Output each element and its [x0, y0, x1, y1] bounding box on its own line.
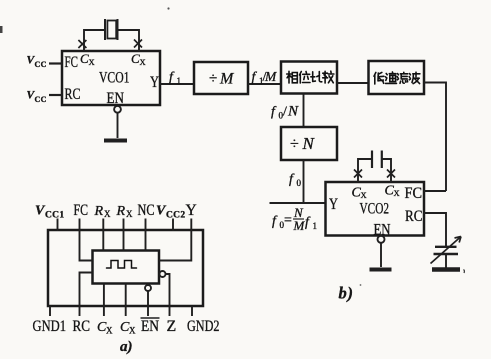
ground under VCO2 [370, 268, 392, 272]
divider M box [194, 62, 248, 94]
wire LPF output to VCO2 FC [424, 83, 446, 192]
pin wire Z [166, 274, 170, 316]
pin stub RX2 top [123, 219, 125, 251]
phase comparator box [281, 62, 337, 94]
svg-text:CC1: CC1 [45, 211, 64, 221]
svg-text:M: M [219, 71, 235, 88]
Vcc supply label 2 [27, 90, 63, 105]
svg-text:CC2: CC2 [166, 211, 185, 221]
crystal X1 body [105, 19, 118, 40]
pin stub CX1 bottom [103, 284, 105, 317]
terminal mark x on CX pin 2 [134, 40, 142, 48]
node label f1 [169, 70, 181, 86]
node label f1/M [252, 69, 278, 86]
pin stub RX1 top [102, 219, 104, 251]
svg-text:VCO2: VCO2 [360, 201, 390, 218]
pin label CX2 bottom [120, 320, 136, 336]
svg-text:M: M [264, 69, 277, 84]
EN bubble IC [145, 285, 151, 291]
ground under VCO1 [104, 139, 127, 143]
svg-text:N: N [302, 134, 316, 153]
svg-text:RC: RC [73, 318, 91, 335]
wire FC2 to LPF feed [424, 190, 446, 192]
svg-text:N: N [287, 104, 299, 120]
svg-text:EN: EN [141, 318, 159, 335]
EN bubble VCO2 [378, 236, 385, 243]
waveform symbol [107, 261, 137, 269]
divider N box [281, 127, 337, 160]
pin label Vcc1 [35, 204, 64, 221]
node label f0 [289, 172, 302, 188]
pin stub EN bottom [147, 291, 149, 316]
svg-text:X: X [394, 188, 400, 198]
svg-text:M: M [293, 218, 306, 233]
wire RC2 to trimmer [424, 213, 446, 246]
capacitor leads above VCO2 [358, 159, 391, 182]
svg-text:X: X [104, 209, 111, 219]
pin label EN bottom with overline [141, 318, 160, 335]
svg-text:GND2: GND2 [187, 318, 220, 335]
wire EN2 to ground [380, 243, 382, 267]
wire phase comparator to divider N [303, 94, 305, 128]
svg-text:Y: Y [186, 202, 197, 219]
wire EN1 to ground [117, 113, 119, 138]
svg-text:EN: EN [107, 90, 125, 107]
pin stub FC top with internal wire [80, 219, 93, 261]
svg-text:X: X [106, 326, 113, 336]
pin label RX2 [116, 204, 134, 219]
svg-text:R: R [94, 204, 104, 219]
pin stub RC bottom with internal wire [80, 273, 93, 317]
Vcc supply label 1 [27, 55, 63, 70]
svg-text:0: 0 [297, 178, 302, 188]
svg-text:1: 1 [177, 76, 182, 86]
VCO1 U1 box [62, 51, 160, 107]
svg-text:R: R [116, 204, 126, 219]
pin stub Vcc1 top [57, 219, 59, 232]
svg-text:FC: FC [65, 54, 79, 71]
node label f0/N [271, 104, 299, 121]
svg-text:X: X [89, 57, 95, 67]
crystal X1 leads [84, 30, 139, 51]
pin stub GND1 bottom [49, 306, 51, 316]
wire trimmer to ground [445, 254, 447, 268]
pin stub GND2 bottom [191, 306, 193, 316]
svg-text:FC: FC [405, 185, 423, 202]
pin label Vcc2 [156, 204, 185, 221]
pin stub Vcc2 top [172, 219, 174, 232]
svg-text:Y: Y [329, 196, 338, 213]
svg-text:÷: ÷ [209, 71, 217, 87]
wire phase comparator to low-pass filter [337, 82, 369, 84]
noise comma right of trimmer ground [463, 270, 466, 274]
svg-text:VCO1: VCO1 [99, 70, 130, 87]
noise mark top-left edge [0, 26, 3, 33]
svg-text:÷: ÷ [290, 136, 299, 153]
svg-text:Y: Y [150, 74, 159, 91]
svg-text:X: X [129, 326, 136, 336]
svg-text:NC: NC [138, 202, 155, 219]
EN bubble VCO1 [114, 106, 121, 113]
svg-text:=: = [284, 213, 292, 228]
capacitor C body above VCO2 [372, 151, 382, 169]
wire Y1 to divider M [160, 83, 194, 85]
IC inner function box [93, 251, 160, 284]
VCO2 U2 box [326, 182, 425, 239]
svg-text:X: X [140, 57, 146, 67]
low-pass filter box [369, 61, 425, 94]
svg-text:b): b) [339, 284, 354, 303]
svg-text:1: 1 [313, 221, 318, 231]
terminal mark x on CX pin 1 [78, 40, 86, 48]
terminal mark x on VCO2 CX pin 1 [354, 170, 362, 178]
pin stub Y top with internal wire [159, 219, 191, 261]
pin label CX1 bottom [97, 320, 113, 336]
svg-text:RC: RC [405, 208, 423, 225]
pin label RX1 [94, 204, 112, 219]
wire divM to phase comparator [248, 83, 281, 85]
ground under trimmer [432, 267, 460, 272]
svg-text:RC: RC [65, 86, 81, 103]
noise dot upper middle [167, 7, 169, 9]
svg-text:Z: Z [167, 318, 177, 335]
pin stub CX2 bottom [125, 284, 127, 317]
trimmer capacitor plates [434, 247, 459, 254]
svg-text:FC: FC [74, 202, 89, 219]
svg-text:CC: CC [35, 60, 47, 69]
pin stub NC top [145, 219, 147, 251]
svg-text:/: / [283, 105, 287, 120]
IC package outer box [48, 230, 203, 306]
Z bubble IC [160, 271, 166, 277]
svg-text:X: X [361, 190, 367, 200]
wire node to VCO2 Y input [270, 202, 326, 204]
terminal mark x on VCO2 CX pin 2 [387, 170, 395, 178]
noise speck near caption b [360, 284, 362, 286]
svg-text:GND1: GND1 [33, 318, 67, 335]
svg-text:a): a) [120, 339, 133, 355]
wire divider N to VCO2 Y node [303, 160, 305, 203]
trimmer arrow [431, 237, 462, 264]
svg-text:X: X [126, 209, 133, 219]
svg-text:CC: CC [35, 95, 47, 104]
formula f0=N/M f1 [272, 205, 317, 233]
